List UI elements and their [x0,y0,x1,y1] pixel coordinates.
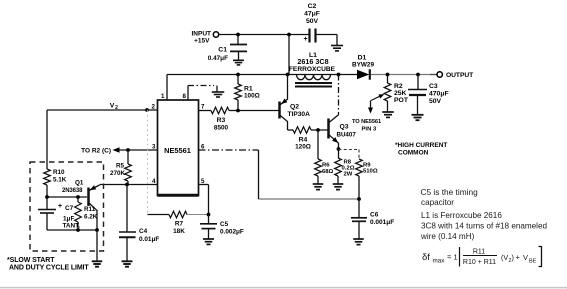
svg-text:C7: C7 [65,205,74,212]
svg-text:2616 3C8: 2616 3C8 [297,57,328,66]
svg-text:+: + [58,203,62,210]
svg-text:R11: R11 [473,249,485,256]
svg-text:50V: 50V [429,98,442,105]
svg-text:BE: BE [529,259,537,265]
svg-text:TIP30A: TIP30A [288,111,311,118]
svg-text:7: 7 [201,104,205,111]
svg-text:(V: (V [501,253,508,262]
svg-text:120Ω: 120Ω [295,144,311,151]
svg-text:510Ω: 510Ω [363,169,378,175]
svg-text:0.002μF: 0.002μF [220,229,244,236]
svg-text:8: 8 [183,93,187,100]
svg-text:+15V: +15V [194,37,210,44]
svg-text:): ) [512,253,514,262]
svg-text:2W: 2W [344,172,353,178]
svg-text:BU407: BU407 [337,131,357,138]
svg-text:100Ω: 100Ω [244,93,260,100]
svg-text:0.001μF: 0.001μF [370,219,394,226]
svg-text:2: 2 [115,105,118,111]
svg-text:R2: R2 [394,83,403,90]
svg-text:INPUT: INPUT [192,30,212,37]
svg-text:V: V [523,253,528,262]
svg-text:FERROXCUBE: FERROXCUBE [289,66,336,73]
svg-text:R4: R4 [299,137,308,144]
svg-text:R10: R10 [53,169,65,176]
svg-text:AND DUTY CYCLE LIMIT: AND DUTY CYCLE LIMIT [9,264,89,271]
svg-text:C5 is the timing: C5 is the timing [421,187,479,197]
svg-text:0.47μF: 0.47μF [208,55,228,62]
svg-text:0.01μF: 0.01μF [139,236,159,243]
svg-text:POT: POT [394,97,409,104]
svg-text:+: + [304,36,308,43]
svg-text:+: + [516,253,520,262]
svg-text:C1: C1 [218,46,227,53]
svg-text:6.2K: 6.2K [84,214,98,221]
svg-text:wire (0.14 mH): wire (0.14 mH) [420,232,475,241]
svg-text:C3: C3 [429,83,438,90]
svg-text:C4: C4 [139,228,148,235]
svg-text:COMMON: COMMON [398,150,429,157]
svg-text:C6: C6 [370,212,379,219]
svg-text:R11: R11 [84,206,96,213]
svg-text:R5: R5 [116,163,125,170]
svg-text:V: V [110,103,115,110]
svg-text:R7: R7 [175,221,184,228]
svg-text:1μF: 1μF [63,216,74,223]
svg-text:R9: R9 [363,162,371,168]
svg-text:R3: R3 [217,117,226,124]
svg-text:R6: R6 [322,163,330,169]
svg-text:1: 1 [161,93,165,100]
svg-text:3C8 with 14 turns of #18 ename: 3C8 with 14 turns of #18 enameled [421,222,547,231]
svg-text:BYW29: BYW29 [352,62,374,69]
svg-text:18K: 18K [173,228,185,235]
svg-text:*SLOW START: *SLOW START [7,257,55,264]
svg-text:25K: 25K [394,90,407,97]
svg-text:PIN 3: PIN 3 [362,127,377,133]
svg-text:50V: 50V [306,18,319,25]
svg-text:R8: R8 [344,159,352,165]
svg-text:2N3638: 2N3638 [62,188,83,194]
svg-text:Q2: Q2 [290,104,299,111]
svg-text:max: max [433,258,446,265]
svg-text:0.2Ω: 0.2Ω [342,166,355,172]
svg-text:OUTPUT: OUTPUT [446,72,474,79]
svg-text:Q1: Q1 [75,180,84,187]
svg-text:capacitor: capacitor [421,198,454,207]
svg-text:L1 is Ferroxcube 2616: L1 is Ferroxcube 2616 [421,211,502,220]
svg-text:8500: 8500 [214,125,229,132]
svg-text:68Ω: 68Ω [322,169,334,175]
svg-text:270K: 270K [110,170,126,177]
svg-text:NE5561: NE5561 [164,146,191,155]
svg-text:TO NE5561: TO NE5561 [352,119,381,125]
svg-text:47μF: 47μF [304,11,320,18]
svg-text:Q3: Q3 [340,124,349,131]
svg-text:R10 + R11: R10 + R11 [463,259,496,266]
svg-text:C2: C2 [308,3,317,10]
svg-text:D1: D1 [358,55,367,62]
svg-text:*HIGH CURRENT: *HIGH CURRENT [395,142,447,149]
svg-text:5.1K: 5.1K [53,177,67,184]
svg-text:= 1: = 1 [447,253,458,262]
svg-text:R1: R1 [244,86,253,93]
svg-text:C5: C5 [220,221,229,228]
svg-text:470μF: 470μF [429,91,449,98]
svg-text:δf: δf [422,252,430,263]
svg-text:TO R2 (C): TO R2 (C) [81,148,111,155]
